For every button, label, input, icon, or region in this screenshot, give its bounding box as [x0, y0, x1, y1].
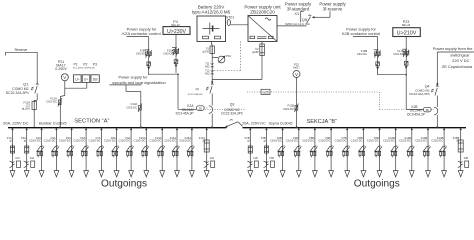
svg-text:K2B contactor control: K2B contactor control	[342, 31, 380, 36]
svg-text:gL20A: gL20A	[22, 106, 30, 110]
svg-text:C10/2-DC: C10/2-DC	[149, 139, 161, 143]
svg-text:gG35: gG35	[203, 50, 210, 54]
svg-text:ST01: ST01	[226, 16, 234, 20]
svg-text:Reserve: Reserve	[15, 48, 28, 52]
svg-text:SEKCJA “B”: SEKCJA “B”	[307, 119, 338, 125]
svg-text:C6/2-DC: C6/2-DC	[393, 52, 403, 56]
svg-text:switchgear: switchgear	[450, 53, 470, 58]
svg-text:20A, 220V DC: 20A, 220V DC	[242, 121, 266, 125]
svg-text:U>: U>	[75, 78, 79, 82]
svg-text:C10/2-DC: C10/2-DC	[334, 139, 346, 143]
svg-text:C10/2-DC: C10/2-DC	[351, 139, 363, 143]
svg-text:C6/2-DC: C6/2-DC	[283, 107, 294, 111]
svg-text:KZA contactor control: KZA contactor control	[122, 31, 160, 36]
svg-text:C6/2-DC: C6/2-DC	[357, 52, 367, 56]
svg-text:gl: gl	[24, 139, 26, 143]
svg-text:ZB2200C20: ZB2200C20	[250, 10, 275, 15]
svg-text:K4A: K4A	[210, 157, 215, 160]
svg-text:MA17: MA17	[293, 67, 300, 70]
svg-text:ZD: ZD	[426, 108, 430, 112]
svg-text:Busbar Cu30x5: Busbar Cu30x5	[39, 121, 67, 126]
svg-text:C6/2-DC: C6/2-DC	[46, 100, 57, 104]
svg-text:P2: P2	[83, 63, 87, 67]
svg-text:C10/2-DC: C10/2-DC	[431, 139, 443, 143]
svg-text:C10/2-DC: C10/2-DC	[73, 139, 85, 143]
svg-text:C10/2-DC: C10/2-DC	[399, 139, 411, 143]
svg-text:C10/2-DC: C10/2-DC	[383, 139, 395, 143]
svg-text:C10/2-DC: C10/2-DC	[104, 139, 116, 143]
svg-text:C10/2-DC: C10/2-DC	[59, 139, 71, 143]
svg-text:25: 25	[202, 139, 205, 143]
svg-text:gl: gl	[247, 139, 249, 143]
svg-text:DC22-32A,3Ph: DC22-32A,3Ph	[6, 91, 29, 95]
svg-text:gl: gl	[264, 139, 266, 143]
svg-text:U>: U>	[84, 78, 88, 82]
svg-text:A02: A02	[205, 71, 210, 75]
svg-text:DC3-45A,3P: DC3-45A,3P	[407, 112, 425, 116]
svg-text:Q5: Q5	[302, 17, 308, 22]
svg-text:C10/2-DC: C10/2-DC	[318, 139, 330, 143]
svg-text:DC3-45A,3P: DC3-45A,3P	[176, 112, 194, 116]
svg-text:C10/2-DC: C10/2-DC	[270, 139, 282, 143]
svg-text:K3B: K3B	[270, 158, 275, 160]
svg-text:Outgoings: Outgoings	[354, 179, 400, 190]
svg-text:DC22-32A,3Ph: DC22-32A,3Ph	[221, 112, 243, 116]
svg-text:Q3: Q3	[230, 103, 235, 107]
svg-text:REx-20: REx-20	[402, 24, 411, 27]
svg-text:U>210V: U>210V	[397, 30, 417, 36]
svg-text:P01: P01	[226, 54, 231, 58]
svg-text:C10/2-DC: C10/2-DC	[118, 139, 130, 143]
svg-text:Szyna Cu30x5: Szyna Cu30x5	[269, 121, 293, 125]
svg-text:C10/2-DC: C10/2-DC	[44, 139, 56, 143]
svg-text:U>230V: U>230V	[167, 29, 186, 35]
svg-text:SZKD tmz 14-0, 32A: SZKD tmz 14-0, 32A	[285, 22, 310, 26]
svg-text:220 V DC: 220 V DC	[452, 58, 469, 63]
svg-text:K1A: K1A	[16, 157, 21, 160]
svg-text:synoptic and local signalizati: synoptic and local signalization	[112, 80, 165, 85]
svg-text:C6/2-DC: C6/2-DC	[163, 51, 173, 55]
svg-text:C10/2-DC: C10/2-DC	[286, 139, 298, 143]
svg-text:Q2: Q2	[196, 87, 200, 91]
svg-text:X1: X1	[294, 11, 300, 16]
svg-text:C10/2-DC: C10/2-DC	[302, 139, 314, 143]
svg-text:3f-reserve: 3f-reserve	[323, 7, 343, 12]
svg-text:C10/2-DC: C10/2-DC	[164, 139, 176, 143]
svg-text:20A, 220V DC: 20A, 220V DC	[3, 121, 29, 126]
svg-text:ZD: ZD	[199, 106, 203, 110]
svg-text:Dst: Dst	[93, 78, 98, 82]
svg-text:GZ6: GZ6	[262, 91, 269, 95]
svg-text:C10/2-DC: C10/2-DC	[415, 139, 427, 143]
svg-text:C10/2-DC: C10/2-DC	[134, 139, 146, 143]
svg-text:C6/2-DC: C6/2-DC	[126, 106, 137, 110]
svg-text:P1: P1	[74, 63, 78, 67]
svg-text:K3A: K3A	[30, 157, 35, 160]
svg-text:C6/2-DC: C6/2-DC	[136, 51, 146, 55]
svg-text:K4B: K4B	[464, 158, 469, 160]
svg-text:DC22-32A,3Ph: DC22-32A,3Ph	[188, 93, 203, 96]
svg-text:DC22-32A,3Ph: DC22-32A,3Ph	[409, 92, 430, 96]
svg-text:gG35: gG35	[252, 50, 259, 54]
svg-text:Outgoings: Outgoings	[101, 179, 147, 190]
svg-text:Power supply for: Power supply for	[119, 75, 149, 80]
svg-text:ZE Częstochowa: ZE Częstochowa	[442, 64, 473, 69]
svg-text:Q1: Q1	[23, 82, 29, 87]
svg-text:0-250V: 0-250V	[55, 67, 67, 71]
svg-text:A02: A02	[205, 64, 210, 68]
svg-text:25: 25	[456, 139, 459, 143]
svg-text:SECTION “A”: SECTION “A”	[74, 118, 109, 124]
svg-text:C10/2-DC: C10/2-DC	[367, 139, 379, 143]
svg-text:C10/2-DC: C10/2-DC	[89, 139, 101, 143]
svg-text:K1B: K1B	[253, 158, 258, 160]
svg-text:C10/2-DC: C10/2-DC	[29, 139, 41, 143]
svg-text:Power supply from the: Power supply from the	[433, 46, 474, 51]
svg-text:P3: P3	[93, 63, 97, 67]
svg-text:KCs-31PD+31PPD-06: KCs-31PD+31PPD-06	[73, 68, 95, 70]
svg-text:typu A412/26,0 M6: typu A412/26,0 M6	[192, 10, 231, 15]
svg-text:C10/2-DC: C10/2-DC	[179, 139, 191, 143]
svg-text:gl: gl	[10, 139, 12, 143]
